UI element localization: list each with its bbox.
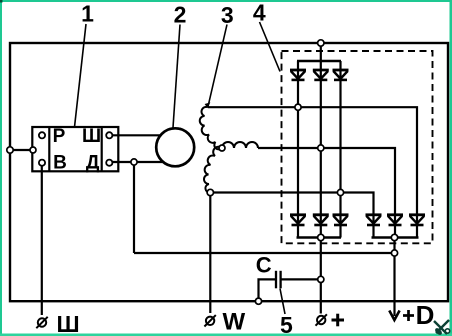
junction: phase C / W terminal node — [207, 189, 213, 195]
regulator terminal Sh circle — [106, 132, 112, 138]
rectifier block dashed outline (4) — [282, 51, 433, 243]
arrow: +D terminal — [389, 311, 399, 321]
wire: frame left edge to regulator — [10, 149, 33, 151]
junction: D line / +D column node — [391, 250, 397, 256]
junction: left bus node — [318, 234, 324, 240]
svg-text:D: D — [416, 300, 435, 330]
junction: frame top edge node — [318, 40, 324, 46]
decorative teal border right — [450, 0, 452, 336]
junction: stator star point — [219, 145, 225, 151]
svg-text:Ш: Ш — [56, 311, 79, 336]
wire: phase A output to rectifier column 6 — [208, 107, 417, 237]
stator phase C winding — [204, 147, 222, 193]
terminal label +D plus sign — [403, 310, 414, 321]
wire: phase C output to rectifier column 4 — [210, 193, 373, 238]
diode VD5 bottom row col2 — [313, 215, 329, 225]
wire: plus output column to terminal — [320, 238, 322, 314]
diode VD3 top row col3 — [333, 70, 349, 80]
regulator box U1 (1) — [32, 127, 118, 171]
regulator terminal V circle — [39, 160, 45, 166]
junction: D wire tap node — [131, 159, 137, 165]
external terminal plus symbol — [316, 314, 327, 325]
junction: regulator left edge node — [30, 147, 36, 153]
leader line 3 — [208, 25, 227, 107]
diode VD8 bottom row col5 — [387, 215, 403, 225]
wire: top bus to frame top edge — [320, 43, 322, 61]
wire: phase B output to rectifier column 5 — [258, 148, 395, 238]
junction: phase C / column3 node — [337, 189, 343, 195]
wire: bottom left diode group bus — [297, 236, 342, 238]
leader line 4 — [260, 22, 281, 72]
decorative teal border bottom — [0, 334, 452, 336]
diode VD9 bottom row col6 — [409, 215, 425, 225]
svg-text:3: 3 — [221, 2, 234, 28]
regulator left divider — [48, 127, 50, 171]
junction: phase A / column1 node — [295, 104, 301, 110]
stator phase A winding (3) — [200, 107, 222, 150]
diode VD1 top row col1 — [290, 70, 306, 80]
regulator terminal R circle — [39, 132, 45, 138]
leader line 1 — [75, 24, 87, 127]
leader line 2 — [173, 25, 180, 128]
regulator terminal D circle — [106, 160, 112, 166]
diode VD2 top row col2 — [313, 70, 329, 80]
junction: capacitor / plus column node — [318, 276, 324, 282]
junction: frame left edge node — [7, 147, 13, 153]
svg-text:4: 4 — [253, 0, 266, 26]
leader 3 arrowhead — [205, 102, 211, 108]
svg-text:Д: Д — [86, 153, 100, 174]
decorative teal border top — [0, 0, 452, 2]
diode VD6 bottom row col3 — [333, 215, 349, 225]
diode VD7 bottom row col4 — [366, 215, 382, 225]
svg-text:В: В — [53, 153, 67, 174]
svg-text:1: 1 — [81, 1, 94, 27]
junction: right bus node — [391, 234, 397, 240]
decorative teal border left — [0, 0, 2, 336]
wire: capacitor right lead to plus column — [280, 278, 320, 280]
wire: top diode group bus — [297, 60, 341, 62]
wire: rectifier column 1 — [297, 61, 299, 238]
wire: phase C node to W external terminal — [209, 193, 211, 314]
watermark scissors — [434, 320, 450, 335]
external terminal label plus — [332, 314, 345, 327]
wire: regulator D terminal down — [133, 162, 135, 253]
svg-text:2: 2 — [174, 2, 187, 28]
svg-text:Р: Р — [53, 126, 66, 147]
wire: rectifier column 3 — [339, 61, 341, 238]
wire: rectifier column 2 — [320, 61, 322, 238]
wire: capacitor left lead to frame bottom — [259, 279, 277, 301]
capacitor C plates (5) — [276, 271, 281, 289]
junction: capacitor / frame bottom node — [255, 298, 261, 304]
diode VD4 bottom row col1 — [290, 215, 306, 225]
wire: D terminal to +D column — [134, 252, 395, 254]
wire: regulator V terminal to Sh external terminal — [41, 163, 43, 315]
svg-text:5: 5 — [280, 312, 293, 336]
wire: regulator D terminal to rotor brush — [109, 161, 163, 163]
decorative dark corner — [0, 0, 3, 3]
junction: phase B / column2 node — [318, 145, 324, 151]
rotor field winding (2) — [156, 128, 194, 166]
svg-text:Ш: Ш — [82, 126, 101, 147]
frame: generator case outline — [10, 43, 448, 301]
regulator right divider — [101, 127, 103, 171]
wire: regulator Sh terminal to rotor brush — [109, 134, 161, 136]
wire: bottom right diode group bus — [372, 236, 419, 238]
external terminal Sh symbol — [36, 317, 47, 328]
external terminal W symbol — [204, 315, 215, 326]
leader line 5 — [280, 289, 285, 315]
svg-text:C: C — [256, 253, 272, 278]
wire: +D output column — [393, 238, 395, 317]
stator phase B winding — [222, 142, 258, 148]
svg-text:W: W — [222, 309, 245, 336]
